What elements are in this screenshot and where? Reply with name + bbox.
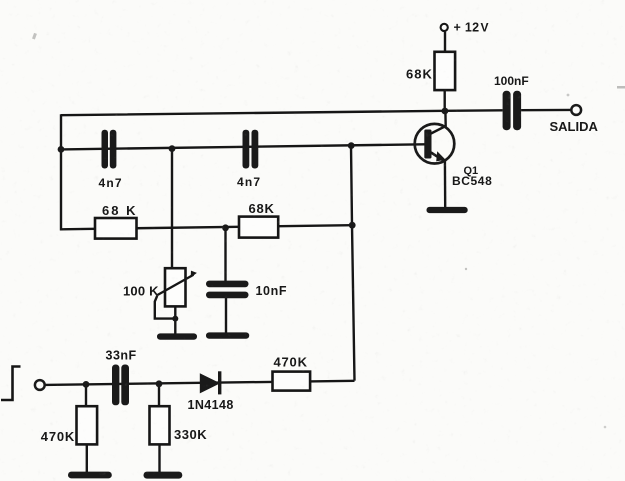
svg-text:100nF: 100nF [494, 74, 529, 88]
svg-text:+ 12: + 12 [454, 20, 480, 34]
svg-text:4n7: 4n7 [237, 175, 261, 189]
svg-text:68 K: 68 K [102, 203, 137, 218]
svg-text:68K: 68K [406, 67, 433, 82]
svg-text:100 K: 100 K [123, 283, 159, 298]
svg-text:330K: 330K [174, 427, 207, 442]
svg-text:4n7: 4n7 [99, 176, 123, 190]
svg-text:1N4148: 1N4148 [188, 398, 234, 412]
svg-text:33nF: 33nF [106, 348, 137, 362]
svg-text:10nF: 10nF [256, 284, 288, 298]
svg-text:SALIDA: SALIDA [550, 119, 599, 134]
svg-text:BC548: BC548 [452, 174, 492, 188]
svg-text:V: V [481, 20, 489, 34]
svg-text:68K: 68K [249, 201, 275, 216]
svg-text:470K: 470K [41, 429, 75, 444]
svg-text:470K: 470K [274, 355, 308, 370]
